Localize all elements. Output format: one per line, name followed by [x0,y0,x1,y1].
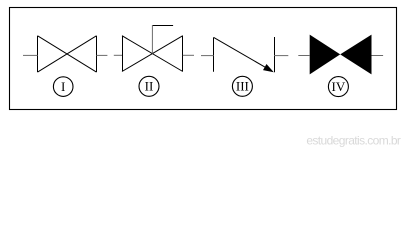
svg-text:I: I [61,79,65,94]
svg-text:IV: IV [332,79,346,94]
svg-text:II: II [145,79,154,94]
svg-text:estudegratis.com.br: estudegratis.com.br [306,133,401,147]
svg-text:III: III [236,79,249,94]
